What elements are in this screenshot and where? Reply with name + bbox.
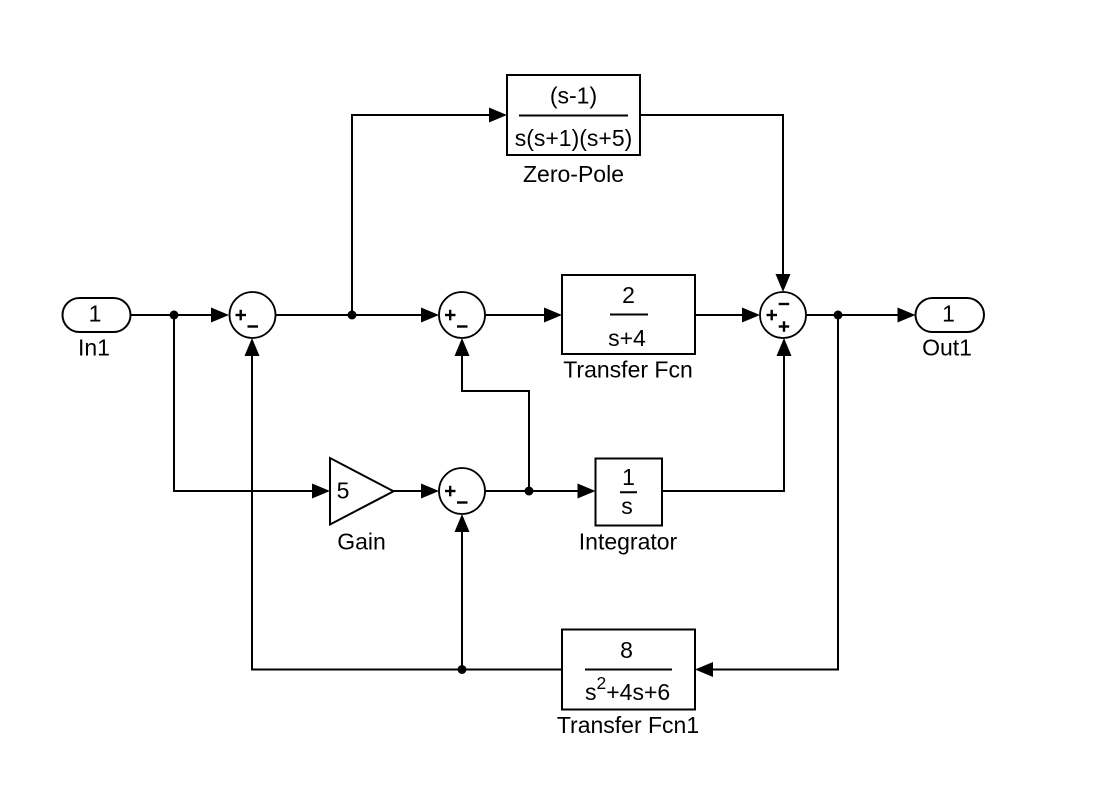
svg-text:8: 8 [620,637,633,663]
wire Integrator to Sum3 bottom [662,338,792,491]
wire Sum4 to Integrator [485,484,596,499]
svg-text:s(s+1)(s+5): s(s+1)(s+5) [515,125,633,151]
wire Gain to Sum4 [394,484,440,499]
junction node C (feedback branch) [834,311,843,320]
block Integrator [579,459,678,555]
wire junction B up to Zero-Pole [352,108,507,316]
sum block S1 [230,292,276,338]
sum block S4 [439,468,485,514]
junction node A (In1 branch) [170,311,179,320]
wire Sum3 to Out1 [806,308,916,323]
gain block Gain [330,458,394,555]
svg-text:In1: In1 [78,335,110,361]
svg-text:s: s [621,493,633,519]
svg-text:Integrator: Integrator [579,529,678,555]
sum block S3 [760,292,806,338]
block Transfer Fcn1 [557,630,699,739]
junction node B (Zero-Pole branch) [348,311,357,320]
svg-text:Out1: Out1 [922,335,972,361]
svg-text:Gain: Gain [337,529,386,555]
wire In1 to Sum1 [131,308,230,323]
wire Transfer Fcn to Sum3 [695,308,760,323]
output port Out1 [916,298,985,361]
wire junction C down to Transfer Fcn1 input [695,315,838,677]
wire junction A down to Gain [174,315,330,499]
svg-text:1: 1 [942,301,955,327]
wire junction D up to Sum2 bottom [455,338,530,491]
svg-text:1: 1 [89,301,102,327]
sum block S2 [439,292,485,338]
svg-text:s+4: s+4 [608,325,646,351]
svg-text:Zero-Pole: Zero-Pole [523,161,624,187]
input port In1 [63,298,131,361]
wire Zero-Pole to Sum3 top [640,115,791,292]
wire Sum1 to Sum2 [276,308,440,323]
wire Transfer Fcn1 output to Sum1 bottom [245,338,563,670]
block Zero-Pole [507,75,640,187]
svg-text:(s-1): (s-1) [550,83,597,109]
block Transfer Fcn [562,275,695,383]
junction node E (Sum4 feedback branch) [458,665,467,674]
junction node D (Sum2 feedback branch) [525,487,534,496]
svg-text:Transfer Fcn1: Transfer Fcn1 [557,712,699,738]
svg-text:5: 5 [337,478,350,504]
wire Sum2 to Transfer Fcn [485,308,562,323]
svg-text:2: 2 [622,282,635,308]
svg-text:Transfer Fcn: Transfer Fcn [563,357,693,383]
svg-text:1: 1 [622,464,635,490]
wire junction E up to Sum4 bottom [455,514,470,670]
